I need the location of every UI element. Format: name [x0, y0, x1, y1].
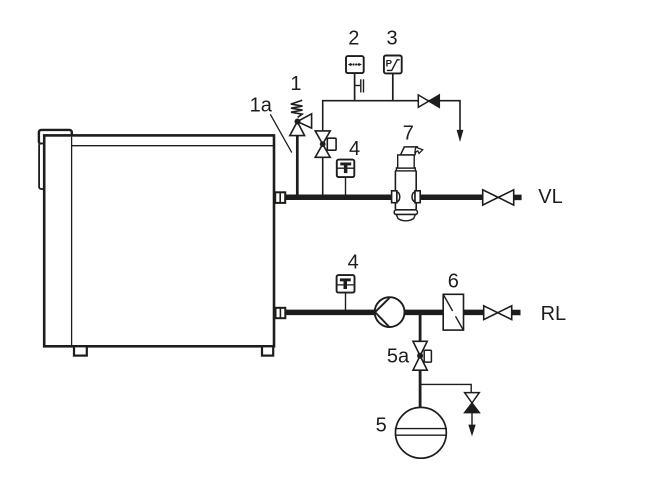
air separator 7 body [395, 170, 416, 210]
safety valve 1 spring [291, 100, 303, 117]
VL shutoff valve [483, 190, 499, 205]
svg-text:4: 4 [348, 252, 359, 274]
pressure sensor 3 stem [392, 73, 394, 101]
air separator 7 spout [415, 147, 423, 153]
drain branch line [421, 384, 471, 392]
cap valve 5a bottom triangle [413, 356, 427, 370]
RL shutoff valve [484, 306, 498, 320]
safety valve 1 outlet triangle [297, 114, 311, 128]
pressure gauge 2 test connection [355, 85, 361, 87]
svg-text:1: 1 [290, 73, 301, 95]
boiler left foot [74, 346, 87, 355]
thermometer 4 top stem [345, 177, 347, 195]
safety valve 1 pivot dot [295, 119, 301, 125]
pressure sensor 3 box [384, 56, 402, 74]
label 1a leader line [270, 114, 292, 152]
pressure gauge 2 stem [354, 73, 356, 101]
boiler VL connection stub [275, 192, 285, 203]
svg-text:7: 7 [403, 123, 414, 145]
svg-text:P: P [386, 59, 393, 70]
thermometer 4 top box [337, 160, 355, 178]
pressure gauge 2 arrow symbol [348, 63, 351, 67]
svg-text:RL: RL [541, 303, 567, 325]
drain arrow bottom [468, 425, 475, 437]
svg-text:5a: 5a [387, 345, 410, 367]
boiler RL connection stub [276, 308, 286, 318]
thermometer 4 top divider [338, 167, 354, 169]
motor valve bottom triangle [315, 144, 330, 157]
thermometer 4 bottom T symbol [340, 278, 351, 281]
boiler right foot [262, 346, 273, 355]
drain arrow top right [457, 130, 464, 142]
pump [375, 297, 405, 327]
manifold valve white triangle [418, 95, 429, 107]
safety valve 1 body triangle up [290, 122, 305, 136]
boiler left hinge strip [39, 144, 45, 190]
boiler top inner line [72, 145, 273, 147]
boiler front panel line [71, 137, 73, 346]
drain valve white triangle [465, 393, 480, 403]
cap valve 5a actuator square [424, 350, 431, 362]
boiler body [44, 135, 274, 346]
air separator 7 left flange [392, 191, 397, 203]
pipe VL main [285, 195, 483, 201]
manifold line with drain corner [323, 101, 460, 131]
svg-text:5: 5 [376, 415, 387, 437]
dirt trap 6 [443, 294, 463, 330]
air separator 7 collar [396, 168, 415, 171]
thermometer 4 bottom box [337, 275, 355, 293]
expansion line upper segment [419, 315, 422, 342]
air separator 7 bottom dome [396, 215, 415, 221]
svg-text:6: 6 [448, 271, 459, 293]
air separator 7 bottom ring [394, 210, 417, 215]
pressure gauge 2 box [346, 56, 364, 73]
svg-text:4: 4 [349, 138, 360, 160]
boiler top cap [39, 130, 72, 144]
svg-text:3: 3 [386, 28, 397, 50]
cap valve 5a dot [417, 353, 423, 359]
svg-text:1a: 1a [250, 95, 273, 117]
thermometer 4 bottom stem [345, 293, 347, 311]
pipe RL main [285, 310, 443, 316]
motor valve actuator square [327, 138, 336, 150]
expansion vessel 5 [396, 407, 447, 458]
expansion line lower segment [419, 370, 422, 407]
svg-text:2: 2 [348, 28, 359, 50]
thermometer 4 top T symbol [340, 163, 351, 166]
motor valve dot [320, 141, 326, 147]
svg-text:VL: VL [538, 186, 562, 208]
thermometer 4 bottom divider [337, 284, 353, 286]
pipe RL between filter and valve [464, 310, 484, 316]
safety valve 1 riser pipe [296, 135, 299, 197]
manifold valve black triangle [429, 95, 440, 107]
cap valve 5a top triangle [413, 341, 427, 356]
air separator 7 cap [401, 147, 418, 155]
air separator 7 right flange [415, 191, 420, 203]
air separator 7 neck [398, 155, 415, 168]
pipe RL stub segment right of valve [512, 310, 521, 316]
pressure sensor 3 ramp [387, 60, 400, 71]
pipe VL stub segment right of valve [514, 195, 522, 201]
motor valve line to pipe [322, 157, 324, 195]
motor valve top triangle [315, 131, 330, 144]
drain valve black triangle [465, 403, 480, 413]
drain outlet line [471, 413, 473, 425]
